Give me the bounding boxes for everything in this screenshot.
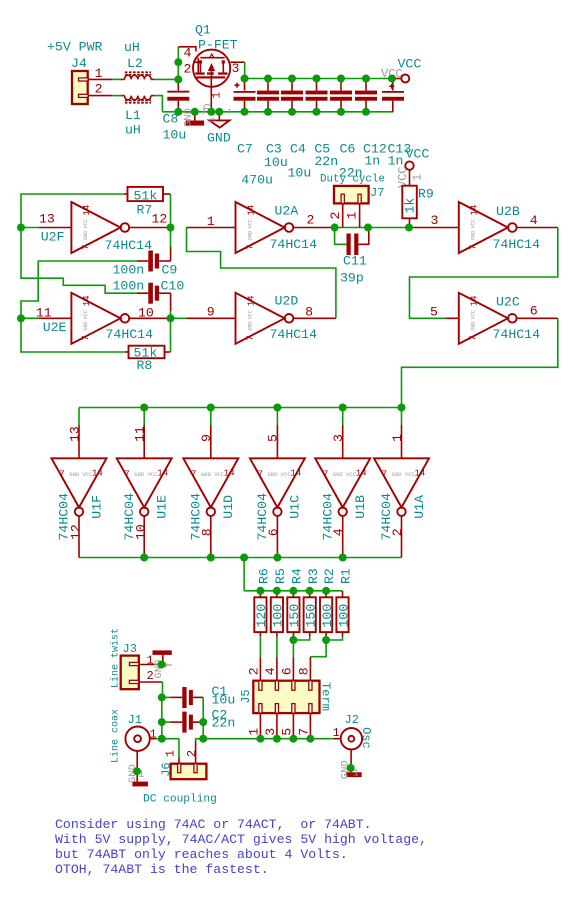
inverter U2B	[414, 202, 558, 253]
capacitor C8	[163, 79, 190, 142]
junction R1-R2 tie	[322, 636, 330, 644]
svg-text:VCC: VCC	[247, 310, 253, 319]
svg-text:GND: GND	[83, 321, 89, 330]
junction J5 pin7	[306, 735, 314, 743]
svg-text:7: 7	[245, 245, 255, 250]
svg-text:14: 14	[356, 469, 367, 479]
junction J1 node	[158, 735, 166, 743]
svg-text:R4: R4	[290, 568, 305, 584]
wire R8 right to U2E output node	[170, 318, 172, 352]
inductor L2	[121, 40, 154, 79]
capacitor C10 100n	[113, 279, 185, 312]
svg-text:U2B: U2B	[496, 204, 520, 219]
svg-text:100n: 100n	[113, 263, 145, 278]
junction GND triangle node	[215, 108, 223, 116]
svg-text:Consider using 74AC or 74ACT,: Consider using 74AC or 74ACT, or 74ABT.	[55, 817, 372, 832]
wire net from J4 pin2 to L1	[112, 95, 123, 97]
wire C9 right to U2F output node	[170, 228, 172, 248]
junction C1C2 main	[199, 735, 207, 743]
svg-text:6: 6	[266, 528, 281, 536]
wire U2F input stub from node A	[21, 227, 39, 229]
wire net from L2 to Q1 node	[154, 78, 178, 80]
svg-text:8: 8	[297, 667, 312, 675]
wire gnd rail bottom	[162, 111, 393, 113]
svg-text:14: 14	[470, 295, 480, 306]
Q1 drain lead down	[203, 87, 224, 112]
svg-text:7: 7	[81, 335, 91, 340]
svg-text:but 74ABT only reaches about 4: but 74ABT only reaches about 4 Volts.	[55, 847, 348, 862]
junction R6 top	[256, 587, 264, 595]
svg-text:J7: J7	[370, 186, 384, 200]
connector J6 DC coupling	[143, 741, 217, 806]
resistor R7 51k	[124, 187, 171, 218]
supply VCC top	[381, 57, 421, 83]
junction J3 pin1 gnd	[158, 661, 166, 669]
wire inverter row output rail	[79, 557, 402, 559]
resistor R8 51k	[125, 346, 171, 374]
connector J1 Line coax	[110, 709, 157, 763]
ground bar symbol at J1	[127, 751, 148, 787]
svg-text:U1B: U1B	[353, 495, 368, 519]
capacitor C7 (polarized 470u)	[234, 79, 273, 188]
junction C6 top	[337, 75, 345, 83]
junction GND bar node	[191, 108, 199, 116]
wire R5 to J5 pin4	[276, 637, 278, 658]
wire U2A out to R9 node	[335, 227, 414, 229]
junction resistor drop	[240, 554, 248, 562]
svg-text:2: 2	[247, 667, 262, 675]
wire down to J6 pin1	[178, 739, 180, 758]
junction U1E out	[140, 554, 148, 562]
wire R7 right to U2F output node	[170, 194, 172, 228]
junction C12 bottom	[362, 108, 370, 116]
svg-text:7: 7	[469, 335, 479, 340]
svg-text:10: 10	[134, 524, 149, 540]
junction U1C in	[273, 404, 281, 412]
svg-text:GND VCC: GND VCC	[268, 471, 292, 478]
svg-text:C6: C6	[340, 142, 356, 157]
svg-text:U1C: U1C	[288, 495, 303, 519]
svg-text:1k: 1k	[403, 198, 418, 214]
junction C2 left	[158, 718, 166, 726]
svg-text:GND: GND	[247, 321, 253, 330]
wire U2E out to U2D in	[171, 317, 187, 319]
svg-text:GND VCC: GND VCC	[333, 471, 357, 478]
wire C10 left to node A (net)	[21, 228, 137, 294]
svg-text:12: 12	[152, 212, 168, 227]
svg-text:C7: C7	[237, 142, 253, 157]
svg-text:14: 14	[415, 469, 426, 479]
svg-text:7: 7	[297, 728, 312, 736]
transistor Q1 P-FET	[178, 23, 244, 87]
resistor R6 120	[254, 568, 271, 636]
svg-text:14: 14	[290, 469, 301, 479]
ground bar symbol near C8	[183, 108, 205, 127]
svg-text:GND: GND	[471, 231, 477, 240]
junction C3 top	[264, 75, 272, 83]
svg-text:7: 7	[191, 470, 196, 480]
inverter U2E	[36, 293, 171, 344]
svg-text:GND VCC: GND VCC	[69, 471, 93, 478]
junction Q1 drain node	[207, 108, 215, 116]
junction R2 top	[322, 587, 330, 595]
svg-text:14: 14	[246, 205, 256, 216]
wire C9 left to U2E input (net)	[21, 261, 137, 318]
inverter U1A	[374, 408, 429, 558]
svg-text:51k: 51k	[134, 188, 158, 203]
svg-text:VCC: VCC	[247, 219, 253, 228]
junction C4 top	[288, 75, 296, 83]
svg-text:9: 9	[199, 434, 214, 442]
svg-text:Duty cycle: Duty cycle	[320, 174, 385, 186]
svg-text:1: 1	[411, 174, 425, 181]
svg-text:GND: GND	[207, 131, 231, 146]
svg-text:7: 7	[81, 245, 91, 250]
junction U1B out	[339, 554, 347, 562]
svg-text:J4: J4	[71, 56, 87, 71]
svg-text:+5V PWR: +5V PWR	[47, 40, 102, 55]
svg-text:8: 8	[199, 528, 214, 536]
wire node A to R7	[21, 194, 124, 228]
svg-text:J2: J2	[345, 713, 359, 727]
inverter U2A	[186, 202, 334, 253]
svg-text:4: 4	[331, 528, 346, 536]
svg-text:7: 7	[258, 470, 263, 480]
svg-text:J5: J5	[239, 689, 253, 703]
junction R5 top	[273, 587, 281, 595]
svg-text:R7: R7	[137, 203, 153, 218]
wire U2D out feedback to U2A in	[187, 228, 336, 319]
svg-text:GND VCC: GND VCC	[201, 471, 225, 478]
junction R4 top	[289, 587, 297, 595]
svg-text:74HC14: 74HC14	[270, 237, 318, 252]
grey tick on rail	[229, 109, 231, 114]
svg-text:Line coax: Line coax	[110, 709, 122, 763]
junction C7 bottom	[241, 108, 249, 116]
junction U1A in feed	[398, 404, 406, 412]
wire R1 jog to R2 column	[326, 637, 342, 641]
junction U2F out	[167, 224, 175, 232]
resistor R4 150	[287, 568, 304, 636]
svg-text:7: 7	[382, 470, 387, 480]
wire R6 to J5 pin2	[259, 637, 261, 658]
svg-text:14: 14	[82, 205, 92, 216]
svg-text:C11: C11	[343, 254, 367, 269]
junction R3-R4 tie	[289, 636, 297, 644]
junction R3 top	[306, 587, 314, 595]
svg-text:2: 2	[390, 528, 405, 536]
svg-text:uH: uH	[125, 123, 141, 138]
svg-text:Osc: Osc	[359, 727, 373, 749]
wire left column C1-C2-main	[161, 697, 163, 738]
svg-text:J1: J1	[128, 713, 142, 727]
wire J3 pin2 down to C1 node	[162, 682, 164, 697]
wire drop from output rail to resistor bank	[243, 558, 245, 591]
capacitor C9 100n	[113, 247, 178, 278]
svg-text:6: 6	[280, 667, 295, 675]
svg-text:2: 2	[184, 62, 192, 77]
svg-text:74HC14: 74HC14	[106, 327, 154, 342]
wire J1 to left column	[156, 738, 179, 740]
svg-text:2: 2	[328, 212, 343, 220]
junction U1E in	[140, 404, 148, 412]
svg-text:U2A: U2A	[275, 204, 299, 219]
wire C10 right to U2E output node	[170, 311, 172, 318]
svg-text:DC coupling: DC coupling	[143, 794, 217, 806]
junction C6 bottom	[337, 108, 345, 116]
svg-text:U2C: U2C	[496, 295, 520, 310]
svg-text:3: 3	[331, 434, 346, 442]
svg-text:14: 14	[82, 295, 92, 306]
svg-text:74HC14: 74HC14	[493, 327, 541, 342]
wire U2E input stub	[21, 317, 39, 319]
svg-text:10u: 10u	[288, 166, 312, 181]
svg-text:120: 120	[254, 604, 269, 628]
resistor R5 100	[271, 568, 288, 636]
svg-text:100n: 100n	[113, 279, 145, 294]
svg-text:R8: R8	[137, 358, 153, 373]
junction U2E in	[17, 314, 25, 322]
junction U2E out	[167, 314, 175, 322]
svg-text:2: 2	[95, 82, 103, 97]
svg-text:U2F: U2F	[41, 230, 65, 245]
svg-text:10u: 10u	[264, 155, 288, 170]
svg-text:2: 2	[307, 213, 315, 228]
svg-text:G: G	[209, 118, 218, 123]
inverter U1E	[117, 408, 172, 558]
wire inverter row input rail	[79, 407, 402, 409]
wire R2 column to J5 pin8	[310, 640, 326, 657]
junction R9 bottom	[405, 224, 413, 232]
svg-text:R6: R6	[257, 568, 272, 584]
wire resistor bank feed	[244, 590, 342, 592]
capacitor C11 39p	[335, 228, 369, 286]
svg-text:6: 6	[530, 304, 538, 319]
wire R4 column to J5 pin6	[292, 637, 294, 658]
svg-text:100: 100	[336, 604, 351, 628]
svg-text:1n: 1n	[364, 153, 380, 168]
capacitor C13 (polarized)	[382, 79, 411, 169]
svg-text:22n: 22n	[314, 154, 338, 169]
svg-text:R9: R9	[418, 187, 434, 202]
svg-text:U2E: U2E	[43, 320, 67, 335]
svg-text:4: 4	[184, 46, 192, 61]
svg-text:5: 5	[280, 728, 295, 736]
svg-text:5: 5	[430, 305, 438, 320]
svg-text:4: 4	[530, 213, 538, 228]
junction U1C out	[273, 554, 281, 562]
connector J7 Duty cycle	[320, 174, 385, 228]
junction C11 left	[331, 224, 339, 232]
svg-text:U1A: U1A	[412, 495, 427, 519]
wire net L1 right to ground rail	[154, 96, 162, 112]
junction U1D out	[207, 554, 215, 562]
svg-text:U1F: U1F	[89, 495, 104, 519]
wire Q1 pin3 to cap rail	[244, 62, 246, 78]
junction C3 bottom	[264, 108, 272, 116]
svg-text:GND VCC: GND VCC	[392, 471, 416, 478]
ground bar symbol at J3	[153, 650, 172, 678]
svg-text:4: 4	[263, 667, 278, 675]
resistor R1 100	[336, 568, 353, 636]
svg-text:GND: GND	[83, 231, 89, 240]
junction C5 top	[313, 75, 321, 83]
svg-text:VCC: VCC	[83, 219, 89, 228]
wire right column of C1/C2 to main wire	[202, 697, 204, 738]
capacitor C1 10u	[162, 684, 235, 708]
svg-text:VCC: VCC	[471, 219, 477, 228]
svg-text:150: 150	[304, 604, 319, 628]
svg-text:1: 1	[390, 434, 405, 442]
junction J5 pin1	[256, 735, 264, 743]
capacitor C3	[257, 79, 288, 171]
svg-text:C10: C10	[161, 279, 185, 294]
inverter U1D	[183, 408, 238, 558]
junction U1D in	[207, 404, 215, 412]
svg-text:GND VCC: GND VCC	[134, 471, 158, 478]
svg-text:7: 7	[59, 470, 64, 480]
svg-text:1: 1	[345, 212, 360, 220]
resistor R3 150	[304, 568, 321, 636]
svg-text:7: 7	[245, 335, 255, 340]
svg-text:Term: Term	[318, 682, 332, 711]
wire Q1 gate/source column	[177, 47, 179, 80]
ground bar symbol at J2	[340, 749, 362, 779]
svg-text:22n: 22n	[212, 716, 236, 731]
junction C5 bottom	[313, 108, 321, 116]
svg-text:1n: 1n	[388, 153, 404, 168]
svg-text:U1E: U1E	[155, 495, 170, 519]
svg-text:150: 150	[287, 604, 302, 628]
svg-text:J3: J3	[123, 642, 137, 656]
inverter U2C	[430, 293, 558, 344]
svg-text:74HC14: 74HC14	[105, 238, 153, 253]
junction J1 gnd	[133, 767, 141, 775]
svg-text:L1: L1	[125, 108, 141, 123]
svg-text:13: 13	[39, 212, 55, 227]
svg-text:OTOH, 74ABT is the fastest.: OTOH, 74ABT is the fastest.	[55, 862, 269, 877]
inverter U1B	[315, 408, 370, 558]
svg-text:Q1: Q1	[195, 23, 211, 38]
svg-text:14: 14	[92, 469, 103, 479]
svg-text:5: 5	[266, 434, 281, 442]
svg-text:10u: 10u	[212, 693, 236, 708]
svg-text:7: 7	[469, 245, 479, 250]
svg-text:3: 3	[232, 61, 240, 76]
junction node A U2F in	[17, 224, 25, 232]
svg-text:100: 100	[320, 604, 335, 628]
svg-text:With 5V supply, 74AC/ACT gives: With 5V supply, 74AC/ACT gives 5V high v…	[55, 832, 427, 847]
svg-text:3: 3	[431, 213, 439, 228]
capacitor C5	[306, 79, 339, 169]
svg-text:14: 14	[224, 469, 235, 479]
junction C7 top	[241, 75, 249, 83]
ground triangle symbol GND	[207, 112, 231, 146]
svg-text:14: 14	[246, 295, 256, 306]
svg-text:1: 1	[247, 728, 262, 736]
inductor L1	[121, 96, 154, 138]
svg-text:11: 11	[133, 426, 148, 442]
wire U2B out to U2C in	[410, 228, 558, 319]
svg-text:uH: uH	[124, 40, 140, 55]
wire J6 pin2 to main wire right	[196, 739, 334, 741]
svg-text:12: 12	[68, 524, 83, 540]
svg-text:74HC14: 74HC14	[270, 327, 318, 342]
svg-text:R1: R1	[339, 568, 354, 584]
junction C1 left	[158, 693, 166, 701]
junction U1B in	[339, 404, 347, 412]
svg-text:R5: R5	[273, 568, 288, 584]
connector J4 (+5V PWR)	[47, 40, 112, 105]
junction wire1 C8 top	[174, 75, 182, 83]
junction C11 right	[364, 224, 372, 232]
capacitor C12	[355, 79, 387, 169]
connector J2 Osc	[333, 713, 374, 749]
wire cap top rail	[245, 78, 393, 80]
svg-text:GND: GND	[247, 231, 253, 240]
svg-text:8: 8	[305, 305, 313, 320]
inverter U1F	[52, 408, 107, 558]
svg-text:C9: C9	[162, 263, 178, 278]
svg-text:7: 7	[124, 470, 129, 480]
svg-text:VCC: VCC	[406, 147, 430, 162]
wire net from J4 pin1 to L2	[112, 78, 123, 80]
junction J2 gnd	[347, 764, 355, 772]
svg-text:7: 7	[323, 470, 328, 480]
svg-text:L2: L2	[127, 56, 143, 71]
svg-text:14: 14	[157, 469, 168, 479]
wire U2E input to R8 left	[21, 318, 125, 352]
svg-text:470u: 470u	[241, 173, 273, 188]
svg-text:10u: 10u	[163, 128, 187, 143]
resistor R2 100	[320, 568, 337, 636]
svg-text:U1D: U1D	[221, 495, 236, 519]
svg-text:1: 1	[212, 92, 224, 99]
inverter U2D	[186, 293, 336, 344]
connector J5 Term	[239, 657, 332, 739]
svg-text:13: 13	[67, 426, 82, 442]
svg-text:74HC14: 74HC14	[493, 237, 541, 252]
inverter U1C	[250, 408, 305, 558]
svg-text:14: 14	[470, 205, 480, 216]
svg-text:VCC: VCC	[471, 310, 477, 319]
wire U2C out to inverter row rail	[402, 318, 558, 408]
svg-text:C4: C4	[290, 142, 306, 157]
inverter U2F	[39, 202, 171, 253]
junction C8 bottom	[174, 108, 182, 116]
junction C12 top	[362, 75, 370, 83]
svg-text:U2D: U2D	[275, 294, 299, 309]
svg-text:3: 3	[263, 728, 278, 736]
svg-text:1: 1	[164, 750, 178, 757]
junction C4 bottom	[288, 108, 296, 116]
svg-text:GND: GND	[471, 321, 477, 330]
resistor R9 1k	[396, 147, 434, 225]
junction C2 right	[199, 718, 207, 726]
junction J5 pin5	[289, 735, 297, 743]
svg-text:2: 2	[185, 750, 199, 757]
svg-text:39p: 39p	[340, 271, 364, 286]
junction J5 pin3	[273, 735, 281, 743]
wire J3 pin1 to gnd node	[156, 664, 162, 666]
svg-text:R2: R2	[322, 568, 337, 584]
wire R3 jog to R4 column	[293, 637, 309, 641]
svg-text:R3: R3	[306, 568, 321, 584]
svg-text:9: 9	[207, 305, 215, 320]
connector J3 Line twist	[110, 628, 163, 689]
capacitor C4	[281, 79, 311, 181]
svg-text:100: 100	[271, 604, 286, 628]
